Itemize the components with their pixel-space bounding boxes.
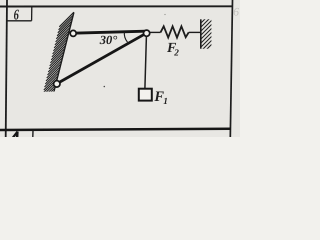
node C xyxy=(144,30,150,36)
angle arc xyxy=(124,32,127,42)
frame bottom line xyxy=(0,129,231,130)
weight square F1 xyxy=(139,89,152,101)
frame top line xyxy=(0,5,233,7)
svg-text:30°: 30° xyxy=(99,33,118,47)
wire spring to wall xyxy=(189,31,201,33)
right wall hatching xyxy=(198,11,213,58)
inclined wall hatching xyxy=(39,12,74,111)
spring F2 xyxy=(161,26,189,37)
pin A upper xyxy=(70,30,76,36)
svg-text:6: 6 xyxy=(233,7,239,19)
svg-text:6: 6 xyxy=(14,8,20,24)
bar top (pin to node) xyxy=(73,31,146,33)
pin B lower xyxy=(54,81,60,87)
frame right line xyxy=(230,0,232,137)
bar diagonal (lower pin to node) xyxy=(57,34,144,83)
cord node to weight xyxy=(145,36,147,88)
frame left line xyxy=(6,0,7,137)
inclined wall edge xyxy=(54,12,74,90)
svg-text:2: 2 xyxy=(173,49,179,59)
next problem number box xyxy=(32,131,34,138)
speck 2 xyxy=(164,14,165,15)
right wall edge xyxy=(200,19,202,48)
svg-text:1: 1 xyxy=(163,97,168,107)
problem number box xyxy=(7,7,32,21)
wire node to spring xyxy=(148,31,161,33)
label 4 xyxy=(13,132,18,138)
speck 1 xyxy=(104,86,106,88)
